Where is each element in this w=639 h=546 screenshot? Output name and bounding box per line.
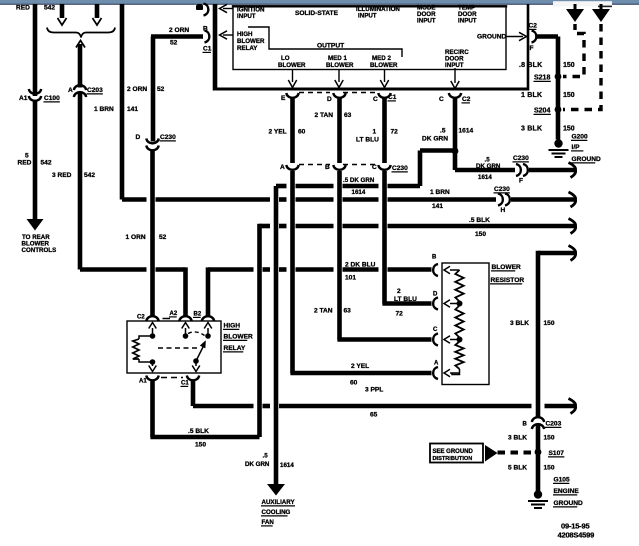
wire LT BLU row to resistor D xyxy=(382,301,431,306)
svg-text:.5 BLK: .5 BLK xyxy=(469,217,490,224)
svg-text:542: 542 xyxy=(84,172,95,179)
label C230-F xyxy=(513,155,530,162)
label C203 bottom xyxy=(545,421,562,428)
label .5 DK GRN 1614 row xyxy=(343,177,375,196)
svg-text:GROUND: GROUND xyxy=(477,34,507,41)
svg-text:1 BRN: 1 BRN xyxy=(94,106,114,113)
svg-text:F: F xyxy=(519,178,523,185)
relay connector C2 arc xyxy=(146,316,158,321)
relay wire A2 riser xyxy=(183,267,188,317)
svg-text:2 DK BLU: 2 DK BLU xyxy=(345,262,376,269)
svg-text:2 YEL: 2 YEL xyxy=(351,363,369,370)
label OUTPUT xyxy=(317,43,344,50)
label C row2 xyxy=(372,164,377,171)
label G105 ENGINE GROUND xyxy=(553,477,583,508)
relay wire A1 drop xyxy=(150,380,155,437)
connector A arc xyxy=(286,165,298,170)
svg-text:INPUT: INPUT xyxy=(358,13,377,20)
svg-text:150: 150 xyxy=(544,435,555,442)
connector C1 ignition arc xyxy=(204,4,209,16)
wire .5 DK GRN from C2-C xyxy=(453,98,458,171)
svg-text:BLOWER: BLOWER xyxy=(370,62,398,69)
svg-text:542: 542 xyxy=(44,5,55,12)
svg-text:3 BLK: 3 BLK xyxy=(521,126,542,133)
svg-text:RELAY: RELAY xyxy=(237,45,258,52)
label RED 542 top cut xyxy=(16,5,55,12)
high blower relay box xyxy=(127,321,221,373)
svg-text:C100: C100 xyxy=(44,95,60,102)
svg-text:150: 150 xyxy=(475,231,486,238)
svg-text:D: D xyxy=(136,134,141,141)
svg-text:S218: S218 xyxy=(534,75,550,82)
connector row C230 dashed line xyxy=(299,164,377,166)
connector C203 pin B xyxy=(532,417,544,429)
svg-text:F: F xyxy=(530,45,534,52)
svg-text:1614: 1614 xyxy=(478,174,492,181)
label HIGH BLOWER RELAY pin xyxy=(237,31,265,52)
svg-text:63: 63 xyxy=(344,308,352,315)
wire 2 TAN row to resistor C xyxy=(337,337,431,342)
label relay A2 xyxy=(169,311,178,317)
label MED 2 BLOWER xyxy=(370,55,398,69)
svg-text:G200: G200 xyxy=(572,134,588,141)
ground bus horizontal xyxy=(213,88,528,91)
dashed path left triangle to S218 xyxy=(563,24,584,77)
connector D arc xyxy=(333,93,345,98)
svg-text:1614: 1614 xyxy=(459,128,474,135)
relay switch dashed throw xyxy=(188,332,205,336)
relay mech dashed link xyxy=(158,347,199,349)
label A1 xyxy=(19,95,28,102)
label datecode xyxy=(558,522,595,540)
connector E arc xyxy=(286,93,298,98)
relay switch blade xyxy=(193,340,206,364)
label .8 BLK 150 xyxy=(519,62,575,69)
resistor arrow A xyxy=(444,369,460,377)
label F C230 xyxy=(519,178,523,185)
connector C1 pin B arc xyxy=(205,31,210,43)
label C100 xyxy=(44,95,61,102)
arrow LO blower output xyxy=(288,70,296,88)
arrow up from brace xyxy=(76,41,85,48)
wire 5 RED 542 vertical xyxy=(33,4,38,220)
svg-text:2 TAN: 2 TAN xyxy=(314,308,333,315)
relay connector A1 arc xyxy=(146,376,158,381)
svg-text:5 BLK: 5 BLK xyxy=(508,465,527,472)
wire 2 DK BLU row xyxy=(208,267,432,272)
svg-text:C1: C1 xyxy=(181,381,189,387)
label D row1 xyxy=(327,96,332,103)
relay connector B2 arc xyxy=(202,316,214,321)
label G200 I/P GROUND xyxy=(571,134,601,164)
svg-text:A2: A2 xyxy=(170,311,178,317)
label H pin xyxy=(501,207,506,214)
A/C controller solid-state box xyxy=(232,6,507,70)
feed stub wire right xyxy=(93,4,102,25)
wire dk grn left branch xyxy=(420,151,455,187)
connector C arc row1 xyxy=(378,93,390,98)
label C2 row1 xyxy=(462,96,471,103)
wire .5 BLK 150 row xyxy=(260,224,575,229)
wire 1 LT BLU upper xyxy=(382,98,387,164)
svg-text:RED: RED xyxy=(18,160,32,167)
svg-text:B: B xyxy=(325,164,330,171)
svg-text:A1: A1 xyxy=(139,379,147,385)
svg-text:AUXILIARY: AUXILIARY xyxy=(262,499,296,506)
resistor element mid xyxy=(455,306,463,338)
svg-text:D: D xyxy=(433,292,438,298)
wire .5 BLK vertical xyxy=(257,224,262,437)
label TO REAR BLOWER CONTROLS xyxy=(22,234,57,254)
wire 1 BRN 141 vertical xyxy=(120,4,125,200)
svg-text:C2: C2 xyxy=(137,315,145,321)
svg-text:150: 150 xyxy=(544,465,555,472)
connector C230 pin F xyxy=(516,164,528,176)
resistor element bottom xyxy=(452,342,464,375)
relay connector C1 arc xyxy=(187,376,199,381)
blower resistor box xyxy=(442,263,489,385)
svg-text:C: C xyxy=(373,96,378,103)
svg-text:3 BLK: 3 BLK xyxy=(510,320,529,327)
hook terminal dk grn xyxy=(569,163,576,178)
svg-text:B2: B2 xyxy=(194,312,202,318)
wire 2 YEL vertical lower xyxy=(290,171,295,373)
dashed path right triangle to S204 xyxy=(563,24,601,110)
resistor arrow C xyxy=(444,336,460,344)
arrow to rear blower controls xyxy=(27,219,44,231)
svg-text:65: 65 xyxy=(370,412,378,419)
svg-text:141: 141 xyxy=(127,106,138,113)
label 2 LT BLU 72 lower xyxy=(394,288,417,318)
label F pin xyxy=(530,45,534,52)
svg-text:C230: C230 xyxy=(392,165,408,172)
resistor junction C xyxy=(457,337,463,343)
label relay C2 xyxy=(137,315,145,321)
hook terminal .5 blk xyxy=(569,219,576,234)
svg-text:B: B xyxy=(523,422,528,428)
svg-text:B: B xyxy=(203,26,208,33)
svg-text:C1: C1 xyxy=(388,94,397,101)
label BLOWER RESISTOR xyxy=(490,264,524,284)
svg-text:.5: .5 xyxy=(440,128,446,135)
svg-text:MED 1: MED 1 xyxy=(328,55,347,62)
relay coil to A1 arrow xyxy=(149,362,157,372)
label S218 xyxy=(534,75,551,82)
label resistor C xyxy=(433,327,438,333)
label 1 BRN 141 upper xyxy=(94,106,138,113)
arrow ignition input pin xyxy=(220,4,234,12)
svg-text:150: 150 xyxy=(563,126,575,133)
label resistor A xyxy=(434,361,439,367)
wire .5 DK GRN fan vertical xyxy=(274,186,279,485)
svg-text:60: 60 xyxy=(298,129,306,136)
label C pin xyxy=(439,96,444,103)
dashed line to S107 xyxy=(498,451,534,455)
label TEMP DOOR INPUT xyxy=(458,5,477,25)
vertical wire at connector C1 xyxy=(213,4,218,91)
svg-text:GROUND: GROUND xyxy=(554,500,584,507)
svg-text:52: 52 xyxy=(170,40,178,47)
label .5 BLK 150 row xyxy=(469,217,490,238)
resistor connector C xyxy=(433,334,438,346)
wire 3 RED to relay A2 row xyxy=(80,267,186,272)
label C230-H xyxy=(494,186,511,193)
svg-text:LO: LO xyxy=(281,55,290,62)
svg-text:1: 1 xyxy=(373,129,377,136)
svg-text:A: A xyxy=(68,87,73,94)
label resistor B xyxy=(432,255,437,261)
svg-text:.8 BLK: .8 BLK xyxy=(519,62,542,69)
svg-text:C: C xyxy=(372,164,377,171)
label resistor D xyxy=(433,292,438,298)
offpage triangle right xyxy=(592,4,610,22)
svg-text:I/P: I/P xyxy=(572,144,581,151)
ground G105 xyxy=(528,490,548,508)
svg-text:INPUT: INPUT xyxy=(417,18,436,25)
resistor element top xyxy=(455,270,463,302)
label .5 DK GRN 1614 vertical xyxy=(422,128,474,143)
svg-text:C230: C230 xyxy=(494,186,510,193)
svg-text:G105: G105 xyxy=(554,477,570,484)
wire LT BLU vertical lower xyxy=(382,171,387,304)
wire 3 RED 542 vertical xyxy=(78,44,83,270)
svg-text:H: H xyxy=(501,207,506,214)
svg-text:5: 5 xyxy=(25,153,29,160)
svg-text:BLOWER: BLOWER xyxy=(224,334,254,341)
svg-text:2 ORN: 2 ORN xyxy=(127,86,147,93)
label HIGH BLOWER RELAY xyxy=(223,323,253,353)
wire .5 BLK bottom row xyxy=(150,435,259,440)
splice S107 xyxy=(535,449,542,456)
connector C100 xyxy=(29,89,41,101)
see ground distribution box xyxy=(430,444,483,463)
svg-text:2 TAN: 2 TAN xyxy=(315,112,334,119)
label D xyxy=(136,134,141,141)
label 2 ORN 52 vertical xyxy=(127,86,165,93)
svg-text:150: 150 xyxy=(544,320,555,327)
label 2 DK BLU 101 xyxy=(345,262,376,282)
svg-text:MED 2: MED 2 xyxy=(372,55,391,62)
label 5 BLK 150 xyxy=(508,465,555,472)
label 3 PPL 65 xyxy=(365,387,383,419)
label B xyxy=(203,26,208,33)
svg-text:S204: S204 xyxy=(534,108,550,115)
arrow MED 1 blower output xyxy=(335,70,343,88)
svg-text:RELAY: RELAY xyxy=(224,345,246,352)
resistor arrow B xyxy=(444,266,460,274)
label 2 TAN 63 lower xyxy=(314,308,351,315)
svg-text:INPUT: INPUT xyxy=(445,62,464,69)
svg-text:DK GRN: DK GRN xyxy=(476,163,501,170)
svg-text:2 ORN: 2 ORN xyxy=(169,27,189,34)
connector C230 pin H xyxy=(498,194,510,206)
brace under feed stubs xyxy=(47,28,115,38)
svg-text:INPUT: INPUT xyxy=(458,18,477,25)
ground G200 xyxy=(549,139,569,157)
svg-text:C1: C1 xyxy=(203,46,212,53)
svg-text:SEE GROUND: SEE GROUND xyxy=(433,449,474,455)
svg-text:INPUT: INPUT xyxy=(237,13,256,20)
wire 2 ORN 52 from C1-B xyxy=(151,37,203,142)
label IGNITION INPUT xyxy=(237,7,265,21)
svg-text:HIGH: HIGH xyxy=(237,31,253,38)
svg-text:1614: 1614 xyxy=(352,189,366,196)
connector C230 pin D xyxy=(146,139,158,151)
svg-text:3 PPL: 3 PPL xyxy=(365,387,383,394)
wire 3 BLK below C203 xyxy=(536,424,541,492)
arrow ground pin xyxy=(506,32,527,40)
svg-text:52: 52 xyxy=(159,234,167,241)
svg-text:C203: C203 xyxy=(87,87,103,94)
label 3 BLK 150 right top xyxy=(521,126,575,133)
label S204 xyxy=(534,108,551,115)
svg-text:.5: .5 xyxy=(263,453,269,460)
offpage triangle left xyxy=(566,4,584,22)
svg-text:SOLID-STATE: SOLID-STATE xyxy=(295,10,339,17)
svg-text:OUTPUT: OUTPUT xyxy=(317,43,344,50)
resistor connector A xyxy=(433,367,438,379)
svg-text:D: D xyxy=(327,96,332,103)
arrow auxiliary cooling fan xyxy=(267,484,285,496)
svg-text:150: 150 xyxy=(563,92,575,99)
svg-text:HIGH: HIGH xyxy=(224,323,241,330)
wire dk grn to hook xyxy=(529,168,575,173)
label C1 xyxy=(203,46,212,53)
wire 1 brn to hook xyxy=(511,197,575,202)
label relay C1 pin xyxy=(181,381,190,387)
wire 1 ORN 52 xyxy=(150,150,155,317)
ignition feed stub xyxy=(196,4,203,10)
label C203 xyxy=(87,87,104,94)
connector C2 pin F arc xyxy=(532,31,537,43)
resistor connector D xyxy=(433,298,438,310)
splice S204 xyxy=(555,106,562,113)
label B row2 xyxy=(325,164,330,171)
hook terminal 1 brn xyxy=(569,192,576,207)
svg-text:72: 72 xyxy=(391,129,399,136)
resistor arrow D xyxy=(444,300,460,308)
arrow recirc door input xyxy=(451,68,459,89)
svg-text:C2: C2 xyxy=(529,23,538,30)
svg-text:DK GRN: DK GRN xyxy=(422,136,448,143)
relay coil xyxy=(133,333,156,365)
svg-text:542: 542 xyxy=(41,160,52,167)
wire 3 BLK hook top xyxy=(538,251,575,256)
hook terminal 3 ppl xyxy=(569,399,576,414)
label C row1 xyxy=(373,96,378,103)
svg-text:1 BRN: 1 BRN xyxy=(430,189,450,196)
label 1 BRN 141 row xyxy=(430,189,450,210)
relay A2 contact xyxy=(182,323,190,339)
title bar strip xyxy=(0,0,639,7)
label AUXILIARY COOLING FAN xyxy=(261,499,295,526)
label 2 TAN 63 upper xyxy=(315,112,352,119)
resistor connector B xyxy=(433,264,438,276)
connector C203 xyxy=(74,85,86,97)
relay wire B2 riser xyxy=(206,267,211,317)
svg-text:C230: C230 xyxy=(513,155,529,162)
label C1 row1 xyxy=(388,94,397,101)
svg-text:CONTROLS: CONTROLS xyxy=(22,247,57,254)
label 1 LT BLU 72 xyxy=(356,129,398,144)
label MED 1 BLOWER xyxy=(326,55,354,69)
svg-text:52: 52 xyxy=(157,86,165,93)
svg-text:A: A xyxy=(280,164,285,171)
label C230 row2 xyxy=(392,165,409,172)
relay wire C1 drop xyxy=(191,380,196,406)
svg-text:RESISTOR: RESISTOR xyxy=(491,277,525,284)
svg-text:C: C xyxy=(433,327,438,333)
label A row2 xyxy=(280,164,285,171)
svg-text:DK GRN: DK GRN xyxy=(245,461,270,468)
svg-text:09-15-95: 09-15-95 xyxy=(561,522,589,531)
svg-text:60: 60 xyxy=(350,380,358,387)
svg-text:72: 72 xyxy=(396,311,404,318)
label 5 RED 542 xyxy=(18,153,52,167)
svg-text:C203: C203 xyxy=(546,421,562,428)
svg-text:150: 150 xyxy=(563,62,575,69)
label SOLID-STATE xyxy=(295,10,339,17)
wire 2 YEL upper xyxy=(290,98,295,164)
label relay A1 xyxy=(139,379,147,385)
label 3 BLK 150 mid xyxy=(510,320,555,327)
label LO BLOWER xyxy=(278,55,306,69)
relay row dash top xyxy=(163,318,171,320)
label MODE DOOR INPUT xyxy=(417,5,436,25)
label 2 YEL 60 lower xyxy=(350,363,369,387)
svg-text:63: 63 xyxy=(344,112,352,119)
relay row dash bottom xyxy=(161,377,183,379)
wire .5 DK GRN row to fan xyxy=(276,184,420,189)
svg-text:B: B xyxy=(432,255,437,261)
relay B2 contact xyxy=(204,323,212,339)
label B C203 xyxy=(523,422,528,428)
resistor junction D xyxy=(457,301,463,307)
label S107 xyxy=(548,450,564,457)
label .5 DK GRN right xyxy=(476,157,501,182)
relay C1 down arrow xyxy=(192,361,200,372)
wire 2 YEL row to resistor A xyxy=(290,371,431,376)
svg-text:BLOWER: BLOWER xyxy=(278,62,306,69)
svg-text:C: C xyxy=(439,96,444,103)
svg-text:DISTRIBUTION: DISTRIBUTION xyxy=(433,456,473,462)
svg-text:1 BLK: 1 BLK xyxy=(521,92,542,99)
label ILLUMINATION INPUT xyxy=(356,6,400,20)
wire .5 DK GRN right to C230-F xyxy=(455,168,515,173)
svg-text:GROUND: GROUND xyxy=(572,156,602,163)
svg-text:RED: RED xyxy=(16,5,30,12)
svg-text:C230: C230 xyxy=(160,134,176,141)
wire 2 TAN vertical lower xyxy=(337,171,342,340)
svg-text:141: 141 xyxy=(432,203,443,210)
wire 3 PPL 65 row xyxy=(193,404,575,409)
svg-text:A: A xyxy=(434,361,439,367)
svg-text:BLOWER: BLOWER xyxy=(237,38,265,45)
svg-text:3 BLK: 3 BLK xyxy=(508,435,527,442)
label A xyxy=(68,87,73,94)
connector C2 pin C arc xyxy=(449,93,461,98)
svg-text:C2: C2 xyxy=(462,96,471,103)
label C230-D xyxy=(160,134,177,141)
see ground pointer triangle xyxy=(485,445,498,462)
svg-text:.5 BLK: .5 BLK xyxy=(188,428,209,435)
svg-text:2: 2 xyxy=(397,288,401,295)
label 3 RED 542 xyxy=(52,172,95,179)
label relay B2 xyxy=(193,312,202,318)
svg-text:S107: S107 xyxy=(549,450,565,457)
label 2 YEL 60 upper xyxy=(269,129,306,136)
connector B arc xyxy=(333,165,345,170)
